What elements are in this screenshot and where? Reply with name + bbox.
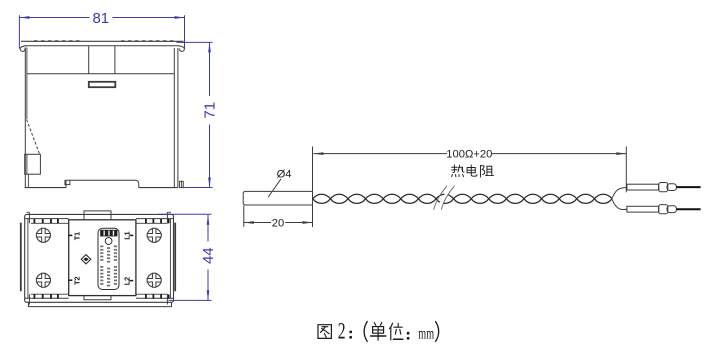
svg-text:71: 71 bbox=[202, 102, 219, 119]
svg-text:L2: L2 bbox=[123, 277, 132, 285]
svg-text:T1: T1 bbox=[72, 232, 81, 240]
svg-text:Ø4: Ø4 bbox=[277, 169, 292, 181]
svg-text:L1: L1 bbox=[123, 231, 132, 239]
svg-text:81: 81 bbox=[92, 10, 109, 27]
svg-text:20: 20 bbox=[272, 217, 284, 229]
svg-text:2: 2 bbox=[338, 319, 346, 344]
svg-text:T2: T2 bbox=[72, 277, 81, 285]
svg-text:44: 44 bbox=[200, 247, 217, 264]
svg-text:100Ω+20: 100Ω+20 bbox=[446, 148, 492, 160]
svg-text:mm: mm bbox=[418, 325, 434, 342]
